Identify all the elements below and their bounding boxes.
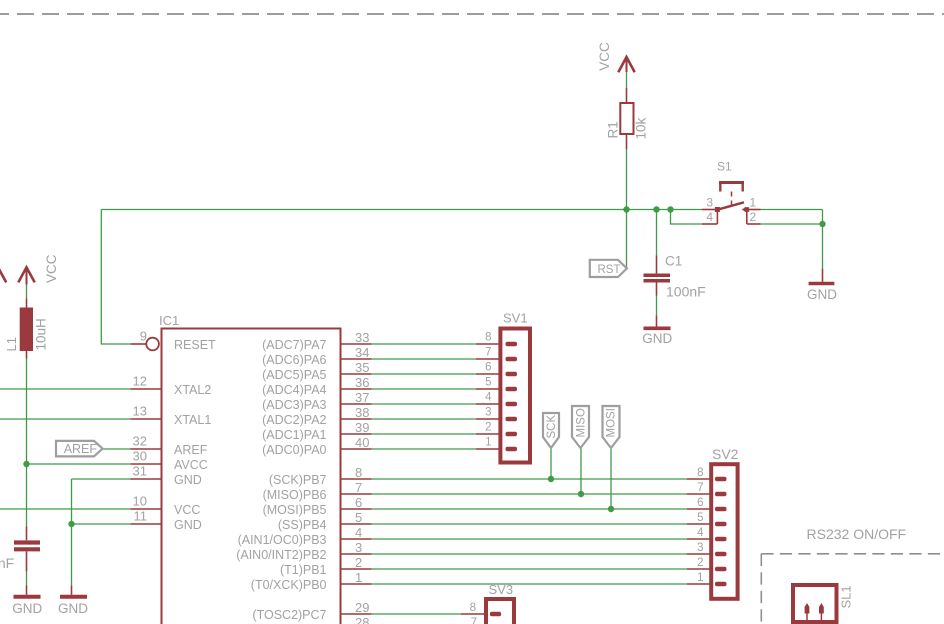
svg-text:6: 6 — [485, 362, 491, 374]
svg-text:4: 4 — [355, 525, 362, 540]
svg-text:AVCC: AVCC — [174, 458, 208, 472]
svg-text:3: 3 — [485, 407, 491, 419]
svg-text:8: 8 — [697, 467, 703, 479]
svg-text:2: 2 — [697, 557, 703, 569]
svg-text:11: 11 — [134, 509, 148, 524]
svg-text:8: 8 — [485, 332, 491, 344]
svg-text:(SS)PB4: (SS)PB4 — [278, 518, 327, 532]
svg-text:8: 8 — [355, 465, 362, 480]
svg-text:3: 3 — [706, 196, 713, 210]
svg-text:SL1: SL1 — [839, 585, 854, 608]
svg-text:(ADC4)PA4: (ADC4)PA4 — [262, 383, 326, 397]
svg-text:5: 5 — [485, 377, 491, 389]
svg-text:1: 1 — [750, 196, 757, 210]
svg-text:VCC: VCC — [44, 254, 59, 283]
svg-text:RESET: RESET — [174, 338, 216, 352]
svg-text:1: 1 — [485, 437, 491, 449]
svg-text:31: 31 — [133, 464, 147, 479]
svg-text:13: 13 — [133, 404, 147, 419]
svg-text:37: 37 — [355, 390, 369, 405]
svg-text:(AIN1/OC0)PB3: (AIN1/OC0)PB3 — [238, 533, 327, 547]
svg-text:7: 7 — [697, 482, 703, 494]
svg-text:7: 7 — [471, 617, 477, 624]
svg-text:RST: RST — [598, 264, 621, 276]
svg-text:12: 12 — [133, 374, 147, 389]
svg-text:AREF: AREF — [64, 442, 98, 456]
svg-text:GND: GND — [174, 473, 202, 487]
svg-text:1: 1 — [355, 570, 362, 585]
svg-text:34: 34 — [355, 345, 369, 360]
svg-text:GND: GND — [807, 287, 837, 302]
svg-text:2: 2 — [485, 422, 491, 434]
svg-text:L1: L1 — [4, 337, 19, 351]
svg-text:(AIN0/INT2)PB2: (AIN0/INT2)PB2 — [236, 548, 326, 562]
svg-text:(SCK)PB7: (SCK)PB7 — [269, 473, 327, 487]
svg-text:(MISO)PB6: (MISO)PB6 — [263, 488, 327, 502]
svg-text:GND: GND — [12, 601, 42, 616]
svg-text:10uH: 10uH — [34, 318, 49, 350]
svg-text:SV1: SV1 — [503, 311, 528, 326]
svg-text:S1: S1 — [717, 160, 732, 174]
svg-text:RS232 ON/OFF: RS232 ON/OFF — [807, 526, 907, 542]
svg-text:10: 10 — [133, 494, 147, 509]
svg-text:VCC: VCC — [597, 42, 612, 71]
svg-text:(ADC0)PA0: (ADC0)PA0 — [262, 443, 326, 457]
svg-text:(ADC1)PA1: (ADC1)PA1 — [262, 428, 326, 442]
svg-text:GND: GND — [642, 331, 672, 346]
svg-text:(T0/XCK)PB0: (T0/XCK)PB0 — [251, 578, 327, 592]
svg-text:(ADC2)PA2: (ADC2)PA2 — [262, 413, 326, 427]
svg-text:(ADC3)PA3: (ADC3)PA3 — [262, 398, 326, 412]
svg-text:(ADC5)PA5: (ADC5)PA5 — [262, 368, 326, 382]
svg-text:SV2: SV2 — [712, 446, 739, 462]
svg-text:(MOSI)PB5: (MOSI)PB5 — [263, 503, 327, 517]
svg-text:GND: GND — [174, 518, 202, 532]
svg-text:(T1)PB1: (T1)PB1 — [280, 563, 327, 577]
svg-text:XTAL2: XTAL2 — [174, 383, 211, 397]
svg-text:R1: R1 — [606, 121, 621, 138]
svg-text:4: 4 — [706, 210, 713, 224]
svg-text:2: 2 — [750, 210, 757, 224]
svg-text:39: 39 — [355, 420, 369, 435]
svg-text:40: 40 — [355, 435, 369, 450]
svg-text:VCC: VCC — [174, 503, 200, 517]
svg-text:38: 38 — [355, 405, 369, 420]
svg-text:1: 1 — [697, 572, 703, 584]
svg-text:(TOSC2)PC7: (TOSC2)PC7 — [252, 608, 326, 622]
svg-text:GND: GND — [58, 601, 88, 616]
svg-text:(ADC6)PA6: (ADC6)PA6 — [262, 353, 326, 367]
svg-text:28: 28 — [355, 615, 369, 624]
svg-text:(ADC7)PA7: (ADC7)PA7 — [262, 338, 326, 352]
svg-text:XTAL1: XTAL1 — [174, 413, 211, 427]
svg-text:8: 8 — [470, 602, 476, 614]
svg-text:4: 4 — [697, 527, 704, 539]
svg-text:7: 7 — [485, 347, 491, 359]
svg-text:SCK: SCK — [546, 415, 558, 439]
svg-text:SV3: SV3 — [489, 582, 514, 597]
svg-text:9: 9 — [140, 329, 147, 344]
svg-text:6: 6 — [355, 495, 362, 510]
svg-text:3: 3 — [355, 540, 362, 555]
svg-text:5: 5 — [697, 512, 703, 524]
svg-text:5: 5 — [355, 510, 362, 525]
svg-text:100nF: 100nF — [666, 284, 706, 300]
svg-text:32: 32 — [133, 434, 147, 449]
svg-text:29: 29 — [355, 600, 369, 615]
svg-text:2: 2 — [355, 555, 362, 570]
svg-text:3: 3 — [697, 542, 703, 554]
svg-text:35: 35 — [355, 360, 369, 375]
svg-text:100nF: 100nF — [0, 555, 14, 571]
svg-text:MOSI: MOSI — [606, 408, 618, 437]
svg-text:IC1: IC1 — [159, 313, 179, 328]
svg-text:30: 30 — [133, 449, 147, 464]
svg-text:36: 36 — [355, 375, 369, 390]
svg-text:AREF: AREF — [174, 443, 208, 457]
svg-text:7: 7 — [355, 480, 362, 495]
svg-text:MISO: MISO — [576, 408, 588, 437]
svg-text:10k: 10k — [634, 117, 649, 139]
svg-text:6: 6 — [697, 497, 703, 509]
svg-text:4: 4 — [485, 392, 492, 404]
svg-text:C1: C1 — [665, 253, 682, 268]
svg-text:33: 33 — [355, 330, 369, 345]
